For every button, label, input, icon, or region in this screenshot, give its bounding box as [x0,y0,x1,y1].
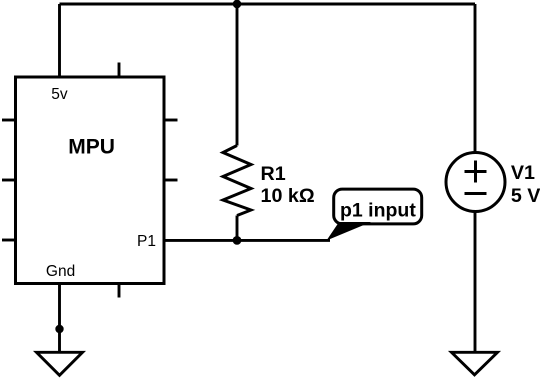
MPU right pin stub 1 [164,119,178,122]
svg-text:V1: V1 [511,162,535,184]
node junction dot P1 net [233,236,242,245]
MPU right pin stub 2 [164,179,178,182]
wire MPU Gnd pin down [58,284,61,353]
svg-text:10 kΩ: 10 kΩ [261,185,315,207]
node dot on Gnd wire [55,325,63,333]
svg-text:p1 input: p1 input [340,199,416,221]
svg-text:5 V: 5 V [511,185,540,207]
MPU box U1 [16,77,165,284]
node junction dot on top rail [233,0,242,8]
MPU top pin stub [118,63,121,78]
MPU left pin stub 2 [2,179,16,182]
svg-text:P1: P1 [137,233,156,250]
wire R1 top lead [236,4,239,146]
svg-text:MPU: MPU [68,135,115,158]
ground symbol under V1 [452,352,498,375]
resistor R1 [223,146,251,216]
wire top rail 5V net [60,3,476,6]
ground symbol under MPU [37,352,83,375]
wire V1 plus terminal to top rail [474,4,477,153]
wire MPU 5v pin to top rail [58,4,61,77]
wire MPU P1 pin net [164,239,330,242]
V1 minus sign [465,192,487,195]
wire V1 minus terminal to ground [474,212,477,353]
annotation callout p1 input box [334,189,422,224]
MPU left pin stub 3 [2,239,16,242]
svg-text:5v: 5v [51,86,68,103]
MPU left pin stub 1 [2,119,16,122]
voltage source V1 [446,153,505,212]
svg-text:Gnd: Gnd [46,263,75,280]
annotation callout tail [327,222,372,241]
svg-text:R1: R1 [261,163,286,185]
MPU bottom pin stub [118,284,121,298]
wire R1 bottom lead [236,216,239,241]
V1 plus sign [465,170,487,173]
